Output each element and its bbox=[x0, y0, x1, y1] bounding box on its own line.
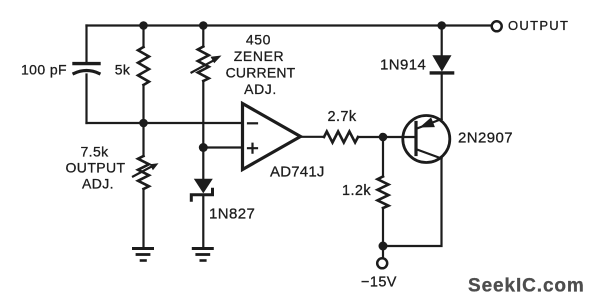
wire 7.5k pot to ground bbox=[142, 189, 144, 247]
svg-text:OUTPUT: OUTPUT bbox=[66, 160, 126, 176]
wire 1.2k branch top bbox=[382, 137, 384, 177]
zener diode D2 1N827 bbox=[194, 179, 213, 194]
node plus input junction bbox=[199, 143, 208, 152]
node emitter bottom junction bbox=[379, 242, 388, 251]
svg-text:ZENER: ZENER bbox=[234, 48, 284, 64]
wire 5k branch bottom bbox=[142, 85, 144, 123]
wire op-amp output bbox=[301, 136, 325, 138]
resistor R4 2.7k bbox=[324, 132, 358, 143]
node base junction bbox=[379, 133, 388, 142]
svg-text:1N914: 1N914 bbox=[380, 57, 426, 74]
wire 450 pot branch top bbox=[202, 26, 204, 47]
wire plus input bbox=[203, 146, 242, 148]
node top 5k junction bbox=[139, 21, 148, 30]
op-amp U1 AD741J bbox=[243, 104, 301, 170]
svg-text:SeekIC.com: SeekIC.com bbox=[468, 276, 585, 297]
terminal OUTPUT bbox=[492, 21, 502, 31]
wire left capacitor branch upper bbox=[85, 26, 87, 62]
wire 1.2k to bottom node bbox=[382, 208, 384, 246]
svg-text:CURRENT: CURRENT bbox=[226, 65, 296, 81]
wire bottom node to -15V terminal bbox=[382, 246, 384, 258]
svg-text:2N2907: 2N2907 bbox=[458, 130, 513, 147]
wire plus node to zener bbox=[202, 148, 204, 180]
transistor Q1 2N2907 bbox=[403, 116, 450, 163]
capacitor C1 100pF bottom plate bbox=[74, 71, 99, 74]
resistor R5 1.2k bbox=[378, 177, 389, 209]
svg-text:1N827: 1N827 bbox=[209, 206, 255, 223]
wire left capacitor branch lower bbox=[85, 75, 87, 124]
wire 7.5k pot top bbox=[142, 123, 144, 156]
svg-text:7.5k: 7.5k bbox=[80, 144, 109, 160]
wire to base node bbox=[358, 136, 415, 138]
svg-text:100 pF: 100 pF bbox=[21, 62, 67, 78]
svg-text:−15V: −15V bbox=[361, 275, 397, 291]
svg-text:1.2k: 1.2k bbox=[342, 183, 371, 199]
wire collector down bbox=[383, 159, 442, 247]
wire zener to ground bbox=[202, 196, 204, 246]
node mid 5k junction bbox=[139, 119, 148, 128]
node top diode junction bbox=[437, 21, 446, 30]
svg-text:ADJ.: ADJ. bbox=[244, 81, 277, 97]
diode D1 1N914 bbox=[432, 55, 451, 71]
wire 450 pot down through mid rail to plus node bbox=[202, 81, 204, 148]
svg-text:ADJ.: ADJ. bbox=[82, 176, 114, 192]
ground G2 bbox=[193, 249, 212, 261]
svg-text:AD741J: AD741J bbox=[270, 164, 325, 181]
potentiometer R2 7.5k OUTPUT ADJ bbox=[138, 156, 149, 189]
wire diode to transistor emitter bbox=[441, 75, 443, 120]
capacitor C1 100pF top plate bbox=[74, 62, 99, 65]
resistor R1 5k bbox=[138, 47, 149, 85]
terminal -15V bbox=[377, 258, 387, 268]
wire 1N914 branch top bbox=[441, 26, 443, 56]
svg-text:OUTPUT: OUTPUT bbox=[508, 18, 569, 33]
wire top rail bbox=[87, 24, 492, 26]
node top 450 junction bbox=[199, 21, 208, 30]
potentiometer R3 450 ZENER CURRENT ADJ bbox=[198, 47, 209, 82]
ground G1 bbox=[134, 249, 153, 261]
svg-text:5k: 5k bbox=[115, 62, 131, 78]
wire mid rail to op-amp minus bbox=[87, 122, 243, 124]
wire 5k branch top bbox=[142, 26, 144, 48]
svg-text:450: 450 bbox=[246, 32, 271, 48]
svg-text:2.7k: 2.7k bbox=[327, 109, 356, 125]
